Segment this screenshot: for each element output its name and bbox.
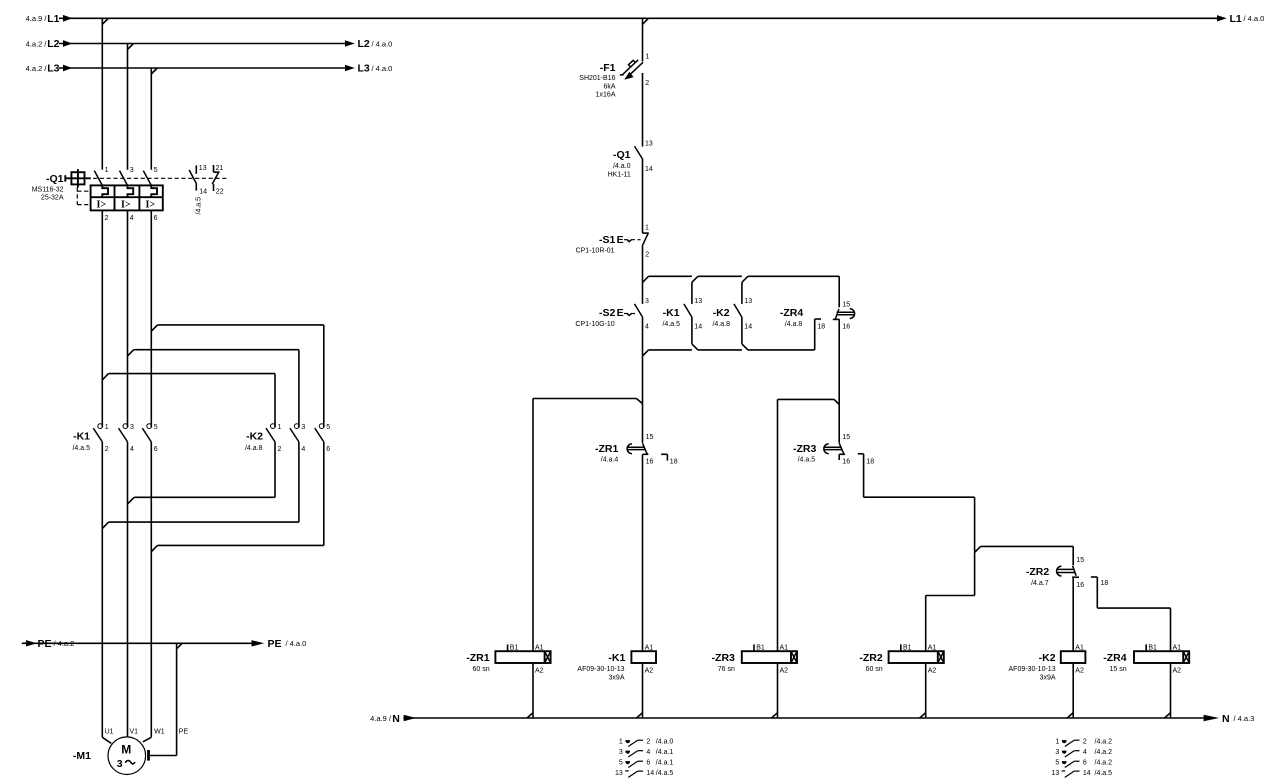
node ZR3 coil branch	[778, 399, 840, 404]
timed contact ZR2 15-16-18	[1057, 566, 1079, 577]
svg-text:13: 13	[645, 140, 653, 147]
svg-text:18: 18	[817, 323, 825, 330]
arrow L3 dest	[345, 65, 355, 71]
svg-text:1: 1	[278, 424, 282, 431]
svg-text:1: 1	[1055, 739, 1059, 746]
svg-text:U1: U1	[105, 729, 114, 736]
svg-text:AF09-30-10-13: AF09-30-10-13	[577, 666, 624, 673]
arrow PE dest right	[252, 640, 265, 646]
svg-text:21: 21	[216, 165, 224, 172]
arrow N source left	[404, 715, 416, 721]
svg-text:/4.a.5: /4.a.5	[656, 770, 674, 777]
svg-text:14: 14	[1083, 770, 1091, 777]
wire L1 top	[59, 17, 1217, 19]
svg-text:2: 2	[105, 215, 109, 222]
svg-text:L2: L2	[358, 38, 370, 50]
contactor K2 pole 5-6	[315, 424, 324, 442]
node L3 branch tick at col3	[151, 68, 157, 74]
svg-text:4.a.2 /: 4.a.2 /	[26, 39, 48, 48]
svg-text:L3: L3	[358, 63, 370, 75]
svg-text:15: 15	[842, 301, 850, 308]
svg-text:15 sn: 15 sn	[1109, 666, 1126, 673]
svg-text:3x9A: 3x9A	[1040, 675, 1056, 682]
svg-text:I>: I>	[121, 200, 131, 211]
svg-text:I>: I>	[97, 200, 107, 211]
svg-text:2: 2	[105, 446, 109, 453]
coil ZR4 timer relay	[1134, 644, 1189, 663]
motor M1	[108, 737, 146, 775]
svg-text:4: 4	[645, 323, 649, 330]
svg-text:L3: L3	[47, 63, 59, 75]
node L1 branch tick at col1	[102, 18, 108, 24]
svg-text:6: 6	[646, 760, 650, 767]
svg-text:B1: B1	[903, 644, 912, 651]
breaker Q1 heater element pole 3	[128, 185, 134, 197]
svg-text:/4.a.8: /4.a.8	[712, 321, 730, 328]
svg-text:4.a.9 /: 4.a.9 /	[370, 714, 392, 723]
aux contact Q1 21-22	[212, 165, 219, 191]
svg-text:SH201-B16: SH201-B16	[579, 75, 615, 82]
svg-text:2: 2	[1083, 739, 1087, 746]
svg-text:16: 16	[842, 459, 850, 466]
svg-text:76 sn: 76 sn	[718, 666, 735, 673]
svg-text:-M1: -M1	[73, 750, 91, 762]
arrow N dest right	[1204, 715, 1219, 721]
wire col1 Q1 out to K1 pole 1	[101, 210, 103, 427]
motor breaker Q1 manual operator crossed box	[65, 169, 91, 187]
arrow PE source left	[26, 640, 37, 646]
svg-text:-ZR1: -ZR1	[466, 652, 489, 664]
svg-text:4: 4	[130, 215, 134, 222]
svg-text:/4.a.7: /4.a.7	[1031, 580, 1049, 587]
svg-text:-K2: -K2	[246, 431, 263, 443]
svg-text:/ 4.a.0: / 4.a.0	[286, 639, 307, 648]
wire ZR4 A2 to N	[1170, 663, 1172, 718]
svg-text:E: E	[617, 307, 624, 319]
svg-text:CP1-10R-01: CP1-10R-01	[576, 248, 615, 255]
svg-text:3: 3	[1055, 749, 1059, 756]
svg-text:/4.a.5: /4.a.5	[798, 457, 816, 464]
svg-text:15: 15	[646, 434, 654, 441]
svg-text:A1: A1	[645, 644, 654, 651]
wire control column L1 to F1	[642, 18, 644, 61]
coil ZR3 timer relay	[742, 644, 797, 663]
svg-text:/ 4.a.3: / 4.a.3	[1234, 714, 1255, 723]
wire K2 pole2 out crossover to col2	[128, 442, 275, 504]
coil K1 contactor	[631, 651, 656, 663]
svg-text:PE: PE	[268, 638, 282, 650]
wire S2 to bottom rail junction	[642, 317, 644, 443]
svg-text:N: N	[1222, 713, 1230, 725]
wire K1 pole1 out to motor U1	[101, 442, 103, 737]
svg-text:13: 13	[1052, 770, 1060, 777]
wire Q1 aux to S1	[642, 159, 644, 233]
wire ZR4 18 to bottom rail	[815, 319, 821, 350]
svg-text:B1: B1	[1148, 644, 1157, 651]
contactor K1 pole 5-6	[142, 424, 151, 442]
svg-text:16: 16	[842, 323, 850, 330]
wire ZR2 18 to ZR4 coil	[1091, 577, 1171, 651]
svg-text:A2: A2	[645, 668, 654, 675]
aux contact Q1 13-14	[189, 165, 196, 190]
svg-text:3: 3	[301, 424, 305, 431]
svg-text:W1: W1	[154, 729, 165, 736]
node N tick at ZR1	[527, 713, 533, 718]
svg-text:-ZR4: -ZR4	[780, 307, 803, 319]
svg-text:AF09-30-10-13: AF09-30-10-13	[1009, 666, 1056, 673]
svg-text:1: 1	[105, 424, 109, 431]
svg-text:A2: A2	[928, 668, 937, 675]
breaker Q1 pole 3 blade	[120, 171, 128, 186]
svg-text:/4.a.8: /4.a.8	[785, 321, 803, 328]
svg-text:1: 1	[645, 54, 649, 61]
contactor K2 pole 1-2	[266, 424, 275, 442]
svg-text:PE: PE	[179, 729, 189, 736]
svg-text:3x9A: 3x9A	[609, 675, 625, 682]
wire parallel group top rail	[649, 275, 840, 277]
wire ZR2 16 to K2 coil	[1072, 577, 1074, 651]
wire ZR1 16 to K1 coil	[642, 454, 644, 651]
svg-text:/4.a.1: /4.a.1	[656, 749, 674, 756]
wire K1 A2 to N	[642, 663, 644, 718]
node parallel group top rail takeoff	[643, 276, 649, 282]
svg-text:A2: A2	[780, 668, 789, 675]
svg-text:-K2: -K2	[713, 307, 730, 319]
svg-text:CP1-10G-10: CP1-10G-10	[575, 321, 614, 328]
svg-text:/4.a.5: /4.a.5	[196, 197, 203, 215]
wire parallel group bottom rail	[649, 349, 815, 351]
svg-text:A1: A1	[1075, 644, 1084, 651]
svg-text:3: 3	[117, 758, 123, 770]
wire ZR3 18 to ZR2	[858, 454, 975, 596]
node N tick at K2	[1067, 713, 1073, 718]
svg-text:N: N	[392, 713, 400, 725]
svg-text:13: 13	[744, 298, 752, 305]
svg-text:/4.a.8: /4.a.8	[245, 445, 263, 452]
arrow L2 dest	[345, 40, 355, 46]
svg-text:3: 3	[130, 424, 134, 431]
breaker Q1 pole 5 blade	[143, 171, 151, 186]
svg-text:/4.a.5: /4.a.5	[1095, 770, 1113, 777]
svg-text:2: 2	[645, 251, 649, 258]
svg-text:25-32A: 25-32A	[41, 195, 64, 202]
pushbutton S1 NC contact	[624, 233, 649, 245]
wire branch to ZR2 contact 15	[981, 546, 1074, 565]
node ZR2 contact branch tick	[975, 546, 981, 552]
wire PE net	[22, 642, 252, 644]
node PE branch tick to motor	[177, 643, 183, 649]
svg-text:18: 18	[1101, 580, 1109, 587]
wire Q1 trip linkage dashed	[77, 188, 90, 205]
coil ZR2 timer relay	[889, 644, 944, 663]
svg-text:L1: L1	[1230, 13, 1242, 25]
svg-text:14: 14	[646, 770, 654, 777]
breaker Q1 thermal overload box	[91, 185, 163, 210]
svg-text:6: 6	[154, 446, 158, 453]
node N tick at ZR3	[772, 713, 778, 718]
svg-text:4: 4	[301, 446, 305, 453]
svg-text:13: 13	[199, 165, 207, 172]
svg-text:-K1: -K1	[608, 652, 625, 664]
svg-text:18: 18	[670, 459, 678, 466]
wire N rail	[403, 717, 1203, 719]
svg-text:-F1: -F1	[600, 62, 616, 74]
svg-text:-S1: -S1	[599, 234, 616, 246]
contactor K1 pole 3-4	[119, 424, 128, 442]
breaker Q1 pole 1 blade	[94, 171, 102, 186]
breaker F1	[620, 60, 643, 80]
svg-text:14: 14	[744, 323, 752, 330]
svg-text:L2: L2	[47, 38, 59, 50]
svg-text:A1: A1	[928, 644, 937, 651]
wire motor U1 lead-in	[102, 737, 111, 743]
stub ZR1 18	[661, 454, 667, 460]
wire ZR1 A2 to N	[532, 663, 534, 718]
svg-text:B1: B1	[510, 644, 519, 651]
svg-text:14: 14	[199, 189, 207, 196]
arrow L1 source left	[63, 15, 72, 22]
svg-text:2: 2	[645, 80, 649, 87]
svg-text:V1: V1	[130, 729, 139, 736]
svg-text:1: 1	[105, 167, 109, 174]
svg-text:3: 3	[645, 298, 649, 305]
svg-text:13: 13	[615, 770, 623, 777]
svg-text:15: 15	[842, 434, 850, 441]
svg-text:/ 4.a.2: / 4.a.2	[54, 639, 75, 648]
timed contact ZR4 15-16-18	[833, 276, 855, 443]
svg-text:A1: A1	[535, 644, 544, 651]
svg-text:/4.a.0: /4.a.0	[656, 739, 674, 746]
svg-text:18: 18	[866, 459, 874, 466]
svg-text:3: 3	[130, 167, 134, 174]
svg-text:5: 5	[154, 167, 158, 174]
wire phase col2 L2 to Q1 pole 3	[127, 44, 129, 170]
svg-text:4.a.9 /: 4.a.9 /	[26, 14, 48, 23]
wire K2 pole6 out crossover to col3	[151, 442, 323, 552]
svg-text:2: 2	[646, 739, 650, 746]
coil ZR1 timer relay	[495, 644, 550, 663]
svg-text:/4.a.5: /4.a.5	[72, 445, 90, 452]
svg-text:6kA: 6kA	[603, 84, 615, 91]
svg-text:L1: L1	[47, 13, 59, 25]
svg-text:E: E	[617, 234, 624, 246]
aux contact K1 13-14 branch	[684, 282, 698, 350]
svg-text:-Q1: -Q1	[613, 149, 631, 161]
svg-text:-S2: -S2	[599, 307, 616, 319]
node top rail tick at K1 branch	[692, 276, 698, 282]
wire to ZR2 coil	[926, 596, 975, 652]
wire Q1 actuator dashed link to poles	[93, 177, 227, 179]
svg-text:/4.a.0: /4.a.0	[613, 163, 631, 170]
node top rail tick at K2 branch	[742, 276, 748, 282]
node L1 branch tick at control column	[643, 18, 649, 24]
wire col2 Q1 out to K1 pole 3	[127, 210, 129, 427]
wire ZR1 coil column	[532, 399, 534, 652]
wire S1 to S2	[642, 245, 644, 304]
svg-text:6: 6	[154, 215, 158, 222]
wire col3 Q1 out to K1 pole 5	[150, 210, 152, 427]
svg-text:HK1-11: HK1-11	[608, 171, 631, 178]
svg-text:/ 4.a.0: / 4.a.0	[372, 39, 393, 48]
coil K2 contactor	[1061, 651, 1086, 663]
wire ZR2 A2 to N	[925, 663, 927, 718]
K1 contact cross-reference table	[619, 739, 674, 747]
svg-text:A2: A2	[535, 668, 544, 675]
svg-text:3: 3	[619, 749, 623, 756]
wire L3 top	[59, 67, 345, 69]
wire L2 top	[59, 43, 345, 45]
svg-text:14: 14	[645, 166, 653, 173]
svg-text:B1: B1	[756, 644, 765, 651]
svg-text:60 sn: 60 sn	[866, 666, 883, 673]
svg-text:60 sn: 60 sn	[472, 666, 489, 673]
breaker Q1 heater element pole 1	[102, 185, 108, 197]
svg-text:/4.a.4: /4.a.4	[601, 457, 619, 464]
svg-text:-ZR2: -ZR2	[1026, 566, 1049, 578]
svg-text:/ 4.a.0: / 4.a.0	[1244, 14, 1265, 23]
svg-text:6: 6	[326, 446, 330, 453]
svg-text:-K1: -K1	[663, 307, 680, 319]
svg-text:14: 14	[694, 323, 702, 330]
arrow L1 dest right	[1217, 15, 1227, 21]
svg-text:A2: A2	[1075, 668, 1084, 675]
contactor K1 pole 1-2	[93, 424, 102, 442]
svg-text:/4.a.5: /4.a.5	[662, 321, 680, 328]
svg-text:5: 5	[326, 424, 330, 431]
arrow L3 source left	[63, 65, 72, 72]
svg-text:I>: I>	[146, 200, 156, 211]
svg-text:-ZR4: -ZR4	[1103, 652, 1126, 664]
node ZR1 coil branch	[533, 399, 643, 404]
svg-text:2: 2	[278, 446, 282, 453]
svg-text:/4.a.2: /4.a.2	[1095, 749, 1113, 756]
svg-text:4.a.2 /: 4.a.2 /	[26, 64, 48, 73]
node N tick at ZR2	[920, 713, 926, 718]
svg-text:-ZR1: -ZR1	[595, 443, 618, 455]
svg-text:5: 5	[619, 760, 623, 767]
svg-text:-ZR3: -ZR3	[712, 652, 735, 664]
wire K1 pole3 out to motor V1	[127, 442, 129, 737]
svg-text:/4.a.1: /4.a.1	[656, 760, 674, 767]
K2 contact cross-reference table	[1055, 739, 1112, 747]
wire ZR3 A2 to N	[777, 663, 779, 718]
node L2 branch tick at col2	[128, 44, 134, 50]
wire K2 A2 to N	[1072, 663, 1074, 718]
svg-text:1: 1	[645, 225, 649, 232]
svg-text:5: 5	[1055, 760, 1059, 767]
svg-text:15: 15	[1076, 557, 1084, 564]
wire phase col3 L3 to Q1 pole 5	[150, 68, 152, 170]
node col1 branch to K2 pole 1	[102, 374, 275, 428]
svg-text:1x16A: 1x16A	[596, 91, 616, 98]
node N tick at ZR4	[1165, 713, 1171, 718]
breaker Q1 heater element pole 5	[151, 185, 157, 197]
svg-text:PE: PE	[38, 638, 52, 650]
svg-text:-K2: -K2	[1039, 652, 1056, 664]
wire K2 pole4 out crossover to col1	[102, 442, 299, 529]
wire motor W1 lead-in	[143, 737, 151, 742]
svg-text:22: 22	[216, 189, 224, 196]
svg-text:MS116-32: MS116-32	[32, 187, 64, 194]
node parallel group bottom rail junction at S2 column	[643, 350, 649, 356]
svg-text:6: 6	[1083, 760, 1087, 767]
node N tick at K1	[637, 713, 643, 718]
svg-text:1: 1	[619, 739, 623, 746]
aux contact Q1 13-14 control	[635, 146, 643, 159]
svg-text:-ZR2: -ZR2	[859, 652, 882, 664]
svg-text:/4.a.2: /4.a.2	[1095, 760, 1113, 767]
svg-text:A1: A1	[780, 644, 789, 651]
svg-text:A1: A1	[1173, 644, 1182, 651]
svg-text:4: 4	[646, 749, 650, 756]
wire PE drop to motor	[149, 643, 177, 760]
svg-text:A2: A2	[1173, 668, 1182, 675]
contactor K2 pole 3-4	[290, 424, 299, 442]
svg-text:5: 5	[154, 424, 158, 431]
svg-text:16: 16	[1076, 582, 1084, 589]
svg-text:M: M	[121, 743, 131, 757]
timed contact ZR1 15-16-18	[627, 443, 648, 454]
svg-text:-ZR3: -ZR3	[793, 443, 816, 455]
wire F1 to Q1 aux 13	[642, 73, 644, 147]
svg-text:4: 4	[1083, 749, 1087, 756]
wire phase col1 L1 to Q1 pole 1	[101, 18, 103, 170]
svg-text:13: 13	[694, 298, 702, 305]
timed contact ZR3 15-16-18	[824, 443, 845, 460]
aux contact K2 13-14 branch	[734, 282, 748, 350]
svg-text:/4.a.2: /4.a.2	[1095, 739, 1113, 746]
svg-text:4: 4	[130, 446, 134, 453]
svg-text:-K1: -K1	[73, 431, 90, 443]
wire K1 pole5 out to motor W1	[150, 442, 152, 737]
pushbutton S2 NO contact	[624, 304, 643, 317]
svg-text:/ 4.a.0: / 4.a.0	[372, 64, 393, 73]
svg-text:-Q1: -Q1	[46, 173, 64, 185]
node col2 branch to K2 pole 3	[128, 350, 299, 428]
node col3 branch to K2 pole 5	[151, 325, 323, 427]
arrow L2 source left	[63, 40, 72, 47]
wire ZR3 coil column	[777, 399, 779, 651]
svg-text:16: 16	[646, 459, 654, 466]
